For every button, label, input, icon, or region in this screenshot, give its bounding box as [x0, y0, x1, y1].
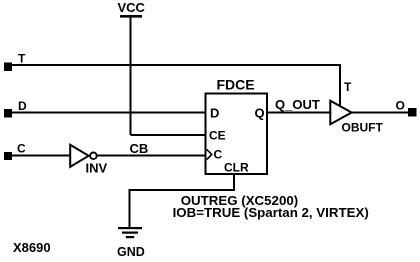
svg-text:T: T	[18, 52, 26, 66]
svg-text:X8690: X8690	[13, 240, 51, 255]
svg-text:IOB=TRUE (Spartan 2, VIRTEX): IOB=TRUE (Spartan 2, VIRTEX)	[173, 205, 369, 220]
svg-text:VCC: VCC	[118, 0, 146, 15]
svg-text:T: T	[344, 80, 352, 94]
svg-text:Q_OUT: Q_OUT	[275, 97, 320, 112]
svg-text:GND: GND	[117, 245, 145, 259]
svg-text:C: C	[214, 148, 223, 162]
svg-text:O: O	[396, 99, 405, 113]
svg-text:CLR: CLR	[224, 161, 249, 175]
svg-text:CB: CB	[130, 141, 149, 156]
svg-text:CE: CE	[209, 129, 226, 143]
svg-text:FDCE: FDCE	[217, 76, 255, 92]
svg-text:D: D	[210, 106, 219, 121]
svg-text:C: C	[17, 142, 26, 156]
svg-text:OBUFT: OBUFT	[342, 121, 384, 135]
svg-text:D: D	[18, 99, 27, 113]
svg-text:Q: Q	[255, 106, 265, 121]
svg-text:INV: INV	[86, 161, 108, 176]
